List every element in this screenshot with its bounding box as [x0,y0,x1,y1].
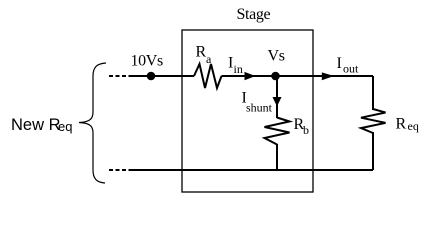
svg-text:I: I [337,55,342,72]
svg-text:I: I [228,55,233,72]
svg-text:R: R [396,116,407,133]
svg-text:eq: eq [408,119,419,133]
svg-text:Vs: Vs [268,48,285,65]
svg-text:New R: New R [11,116,61,134]
svg-text:10Vs: 10Vs [131,53,164,70]
svg-text:out: out [343,62,359,76]
svg-text:in: in [234,62,243,76]
svg-text:R: R [196,44,207,61]
svg-text:a: a [206,52,212,66]
svg-text:Stage: Stage [237,6,271,23]
svg-text:shunt: shunt [246,101,273,115]
svg-text:b: b [303,123,309,137]
svg-text:eq: eq [58,119,72,134]
